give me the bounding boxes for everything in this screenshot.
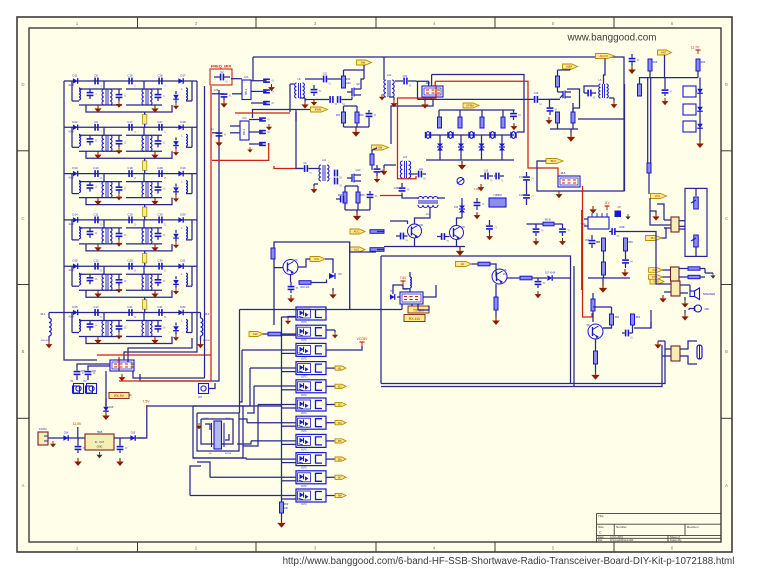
cap C51 — [622, 259, 629, 261]
cap C39 band 4 mid-right — [155, 233, 162, 235]
varactor VD4 — [499, 144, 505, 148]
svg-text:D17 4148: D17 4148 — [545, 273, 556, 275]
filter resistor R22 — [458, 117, 462, 128]
power label TX.11V — [408, 306, 429, 313]
ground fet2 stage big — [356, 212, 358, 216]
wires opto rows left nest — [242, 349, 296, 351]
fuse F3 between band 3 and 4 — [143, 207, 147, 217]
net oval PTT — [649, 275, 663, 280]
fet2 cap left C13 — [340, 196, 342, 203]
diode D18 band 4 — [178, 217, 183, 223]
wire IF oval to stage2 — [295, 112, 297, 147]
cap band 1 left-shunt — [87, 92, 94, 94]
svg-text:C04: C04 — [403, 75, 408, 78]
svg-text:R44: R44 — [701, 61, 706, 64]
cap C10 band 2 — [128, 124, 130, 131]
jack contact NB1 — [694, 197, 699, 209]
bus wire blue left — [204, 86, 206, 378]
resistor R56 — [624, 238, 628, 251]
svg-text:R42 10K: R42 10K — [301, 287, 310, 289]
mixer IC1 box — [242, 80, 251, 100]
svg-text:IC1: IC1 — [244, 75, 249, 79]
svg-text:7.8M: 7.8M — [474, 187, 481, 191]
ground band 3 right small — [175, 196, 177, 199]
ground left of CN4 — [657, 341, 659, 344]
svg-text:817C: 817C — [301, 322, 307, 324]
svg-text:C29: C29 — [157, 212, 163, 216]
wire IF2 from oval down — [296, 147, 304, 169]
svg-text:ANT: ANT — [661, 51, 667, 55]
svg-text:C: C — [725, 216, 728, 221]
svg-text:11.5V: 11.5V — [73, 422, 82, 426]
svg-text:C8: C8 — [94, 74, 98, 78]
diode D15 series — [130, 435, 135, 441]
svg-text:4148: 4148 — [68, 84, 74, 87]
svg-text:32768: 32768 — [225, 453, 232, 455]
transformer L8 — [295, 83, 297, 98]
svg-text:C: C — [599, 531, 602, 535]
ground mic right — [332, 291, 334, 294]
fet2 bias resistor R35 — [343, 192, 347, 203]
svg-text:R51: R51 — [615, 317, 620, 319]
svg-text:D16: D16 — [72, 305, 78, 309]
svg-text:DC/DC: DC/DC — [39, 428, 47, 431]
net label oval row 9 — [335, 457, 346, 461]
inductor L15 — [410, 277, 411, 288]
mic block wires — [274, 267, 283, 269]
relay coil RL2 right of band 6 — [201, 318, 203, 336]
jack inner stem — [695, 188, 697, 196]
transformer L14 horizontal — [418, 197, 438, 208]
inductor L6 band 3 right — [186, 181, 188, 193]
double bus bottom pair — [381, 341, 665, 384]
band filter 5 side wires — [63, 266, 65, 312]
amp bottom rail — [550, 128, 578, 130]
ground under TVS chain — [699, 140, 701, 144]
net oval BFO out — [546, 159, 563, 164]
svg-text:SBL1: SBL1 — [242, 128, 246, 135]
bus wire red mid — [119, 86, 211, 381]
svg-text:R36: R36 — [360, 195, 365, 197]
svg-text:B2: B2 — [338, 385, 342, 389]
cap C44 left of Q8 — [400, 233, 402, 240]
diode D19 mic — [329, 273, 335, 279]
svg-text:11V: 11V — [604, 201, 610, 205]
bfo bottom rail — [384, 246, 465, 248]
svg-text:D17: D17 — [180, 74, 186, 78]
svg-text:C10: C10 — [93, 166, 99, 170]
antenna rail wire — [639, 77, 698, 79]
ground band 2 mid — [118, 147, 120, 150]
net label oval row 4 — [335, 366, 346, 370]
cap band 6 left-shunt — [87, 323, 94, 325]
svg-text:B6: B6 — [338, 457, 342, 461]
opto driver U10 row 1 — [296, 307, 326, 320]
ground right of IC1 — [271, 84, 273, 87]
svg-text:C13: C13 — [93, 305, 99, 309]
svg-text:L10: L10 — [387, 73, 392, 77]
fuse F5 between band 5 and 6 — [143, 300, 147, 310]
R8 wires — [527, 223, 544, 225]
band 6 inner wiring — [71, 313, 73, 333]
svg-text:AN.I/O: AN.I/O — [600, 54, 609, 58]
diode D20 band 5 — [178, 263, 183, 269]
cap C40 band 5 mid-right — [155, 279, 162, 281]
resistor R26 — [556, 112, 560, 123]
svg-text:R8 1K: R8 1K — [545, 220, 552, 222]
svg-text:8M: 8M — [361, 61, 366, 65]
cap C9 fet2 drain — [374, 168, 381, 170]
cap C23 band 5 — [158, 263, 160, 270]
trimpot W2 — [87, 384, 97, 394]
svg-text:MIC: MIC — [705, 307, 710, 311]
cap C19 band 4 — [158, 217, 160, 224]
resistor R42 — [299, 281, 311, 285]
transformer L13 — [400, 161, 402, 178]
cap C26 left of IC1 — [221, 93, 228, 95]
row1 wire drop to nest — [239, 310, 241, 414]
crystal X1 — [424, 132, 426, 138]
wire top rail from IC1 — [253, 57, 624, 191]
wire bank-left down to power area — [64, 344, 97, 360]
transistor Q5 — [492, 269, 507, 284]
cap C6b right of IC1 — [263, 89, 270, 91]
cap C7 band 1 — [158, 78, 160, 85]
mic amp enclosure wires — [274, 242, 350, 325]
svg-text:7.8MHZ: 7.8MHZ — [493, 194, 502, 197]
svg-text:817C: 817C — [301, 340, 307, 342]
ground under RL2 coil — [200, 336, 202, 341]
opto driver U19 row 10 — [296, 471, 326, 484]
ground bfo big — [459, 247, 461, 251]
ground under VOL wire — [655, 213, 657, 216]
opto column shared cathode bus — [281, 317, 283, 502]
net label oval row 5 — [335, 384, 346, 388]
filter resistor R24 — [501, 117, 505, 128]
ground right of L5 — [613, 101, 615, 104]
wire D17 to bus — [553, 277, 571, 279]
ground under C40 — [664, 98, 666, 101]
cap C36 band 1 mid-right — [155, 94, 162, 96]
wire W3 to bus — [209, 383, 216, 389]
cap C1 with ground — [629, 58, 636, 60]
ground band 6 right small — [175, 335, 177, 338]
cap band 2 left-shunt — [87, 138, 94, 140]
transformer T11 band 6 — [102, 321, 104, 337]
double bus vertical right — [573, 266, 575, 387]
svg-text:AGC: AGC — [354, 230, 360, 234]
relay RL5 — [558, 176, 580, 187]
ground under C1 — [631, 66, 633, 70]
crystal X2 — [447, 132, 449, 138]
ground band 3 mid — [118, 194, 120, 197]
opto row1 left pin gnd — [288, 317, 296, 319]
cap C2 in red box — [220, 74, 222, 81]
svg-text:817C: 817C — [301, 377, 307, 379]
svg-text:SBL1: SBL1 — [244, 88, 248, 95]
wire from mic block to TX loop — [350, 251, 376, 253]
ground under C4 — [218, 139, 220, 142]
band filter 1 top rail wire — [64, 80, 197, 82]
ground fet stage big — [355, 128, 357, 132]
electret mic M1 — [697, 345, 702, 359]
net oval CW — [649, 268, 663, 273]
red wire loop at IC2 — [235, 112, 290, 114]
ground band 2 right small — [175, 149, 177, 152]
transformer T4 band 2 — [142, 135, 144, 151]
cap C15 — [484, 173, 486, 180]
transformer T2 band 1 — [142, 89, 144, 105]
svg-text:Title: Title — [598, 514, 604, 518]
ground band 4 left-shunt — [97, 244, 99, 247]
svg-text:C26: C26 — [214, 89, 219, 92]
svg-text:D20: D20 — [180, 212, 186, 216]
cap C12 bypass — [366, 113, 373, 115]
RL6 wires — [411, 304, 413, 306]
cap C15 band 3 — [158, 170, 160, 177]
ground filter — [461, 161, 463, 165]
cap C54 — [625, 330, 627, 337]
net oval DA7.8M — [372, 145, 389, 150]
cap C22 shunt — [547, 107, 554, 109]
resistor R62 — [688, 267, 700, 270]
net oval AGC top — [357, 60, 372, 65]
inductor L1 band 1 left — [79, 88, 81, 100]
net label oval row 10 — [335, 475, 346, 479]
TVS protection diode row 2 — [683, 104, 696, 115]
resistor R27 — [571, 112, 575, 123]
audio bottom rail — [588, 277, 630, 279]
svg-text:R52: R52 — [636, 317, 641, 319]
wire Q5 row to double bus — [570, 277, 572, 279]
ground band 5 left-shunt — [97, 290, 99, 293]
transformer T1 band 1 — [102, 89, 104, 105]
svg-text:PH: PH — [651, 236, 655, 240]
svg-text:A: A — [22, 483, 25, 488]
key connector CN4 tan — [671, 346, 680, 361]
svg-text:D14: D14 — [72, 212, 78, 216]
yellow net label below RL3 — [109, 393, 131, 398]
svg-text:C11: C11 — [94, 212, 99, 216]
resistor R44 — [696, 59, 700, 71]
resistor R31 bias — [342, 112, 346, 123]
trimmer cap CT1 — [457, 178, 464, 185]
net oval VOL — [651, 194, 667, 199]
ground below C58 — [77, 458, 79, 462]
resistor R47 on dual wire — [647, 163, 651, 173]
diode D32 band 2 vert — [173, 141, 179, 145]
crystal filter top rail — [439, 109, 515, 111]
crystal Y4 7.8MHZ box — [489, 198, 506, 207]
svg-text:2N3: 2N3 — [503, 274, 508, 276]
ground below Q6 — [595, 371, 597, 375]
vertical wire x537 — [537, 170, 580, 191]
svg-text:D19: D19 — [180, 166, 186, 170]
ground below 7805 — [99, 452, 101, 455]
red wire RL3 to L13 bfo input — [398, 86, 437, 179]
svg-text:C42: C42 — [519, 177, 524, 179]
cap C3 left of L5 — [587, 90, 589, 97]
ground band 2 left-shunt — [97, 151, 99, 154]
inductor L11 band 6 left — [79, 320, 81, 332]
net label oval row 11 — [335, 493, 346, 497]
inductor L9 band 5 left — [79, 273, 81, 285]
caps C33 C34 right of L11 — [334, 170, 336, 177]
red loop wire over filter — [435, 81, 558, 176]
svg-text:C11: C11 — [323, 73, 328, 76]
cap C52 mic — [288, 286, 295, 288]
svg-text:ALC: ALC — [354, 248, 359, 252]
L5 wires — [604, 59, 606, 85]
svg-text:D:\hf-ssb\6band.ddb: D:\hf-ssb\6band.ddb — [610, 538, 634, 542]
ground amp stage big — [570, 133, 572, 137]
ground under C49 — [537, 291, 539, 294]
cap C13 right of IC2 — [259, 117, 266, 119]
cap C16 — [495, 173, 497, 180]
cap C14 on source line — [329, 96, 331, 103]
ground band 1 right small — [175, 103, 177, 106]
svg-text:22NF: 22NF — [619, 227, 625, 229]
ground crystal pack — [198, 423, 200, 426]
TX loop big box wire — [381, 256, 571, 384]
band 1 inner wiring — [71, 81, 73, 101]
cap C30 shunt — [311, 89, 318, 91]
wire nest right loop to mid-bus — [133, 371, 205, 378]
svg-text:C32: C32 — [454, 207, 459, 209]
ground under C26 — [223, 100, 225, 103]
svg-text:817C: 817C — [301, 413, 307, 415]
svg-text:C28: C28 — [157, 166, 163, 170]
ground below mic icon — [684, 313, 686, 316]
svg-text:D15: D15 — [72, 259, 78, 263]
cap C26 band 6 — [128, 309, 130, 316]
opto driver U20 row 11 — [296, 489, 326, 502]
svg-text:R46: R46 — [653, 61, 658, 64]
cap C28 band 6 — [94, 309, 96, 316]
cap C6 series — [304, 165, 306, 172]
svg-text:VOL: VOL — [655, 194, 661, 198]
IC2 right pin wires — [249, 119, 263, 121]
Q6 collector network wires — [592, 293, 594, 299]
svg-text:7.5V: 7.5V — [400, 276, 407, 280]
filter resistor R21 — [438, 117, 442, 128]
wire R3 to Q5 base — [495, 270, 497, 277]
svg-text:817C: 817C — [301, 358, 307, 360]
cap C30 band 1 mid-left — [116, 94, 123, 96]
diode D34 band 3 vert — [173, 187, 179, 191]
resistor R32 bias — [355, 112, 359, 123]
svg-text:817C: 817C — [301, 504, 307, 506]
blue wire 7M oval up to IF line — [391, 99, 433, 144]
ground under C30 — [313, 99, 315, 102]
resistor R55 — [602, 238, 606, 251]
fet2 bias resistor R36 — [356, 192, 360, 203]
mixer IC2 box — [240, 121, 249, 140]
svg-text:A: A — [725, 483, 728, 488]
svg-text:7805: 7805 — [97, 430, 103, 434]
relay RL3 IF switch — [422, 86, 443, 97]
cap C33 band 4 mid-left — [116, 233, 123, 235]
svg-text:C43: C43 — [519, 195, 524, 197]
transformer T5 band 3 — [102, 182, 104, 198]
svg-text:817C: 817C — [301, 431, 307, 433]
CN3 wires — [680, 284, 690, 286]
band 3 inner wiring — [71, 174, 73, 194]
ground under C48 — [562, 238, 564, 241]
cap C43 right — [523, 194, 530, 196]
resistor R5 below Q5 — [494, 297, 498, 310]
cap C22 band 5 — [128, 263, 130, 270]
svg-text:IF8M: IF8M — [315, 108, 322, 112]
diode D21 band 6 — [73, 310, 78, 316]
diode D19 band 5 — [73, 263, 78, 269]
svg-text:D14: D14 — [64, 432, 69, 435]
diode D13 band 2 — [73, 125, 78, 131]
diode D15 band 3 — [73, 171, 78, 177]
cap C6 band 1 — [128, 78, 130, 85]
svg-text:B7: B7 — [338, 476, 342, 480]
diode D22 band 6 — [178, 310, 183, 316]
Q5 base wire — [490, 264, 496, 270]
ground left of CN3 — [662, 295, 664, 298]
red wire RL1 to right bus — [118, 357, 120, 371]
svg-text:C15: C15 — [484, 171, 489, 173]
svg-text:B8: B8 — [338, 494, 342, 498]
ground band 1 mid — [118, 101, 120, 104]
crystal pack nested loop 4 — [205, 424, 210, 430]
svg-text:100K: 100K — [345, 82, 351, 85]
svg-text:CW: CW — [253, 332, 258, 336]
ground under C38 — [489, 233, 491, 236]
svg-text:R32: R32 — [359, 115, 364, 117]
cap C8 supply — [615, 211, 622, 218]
ground under C51 — [624, 269, 626, 272]
svg-text:R60: R60 — [284, 503, 289, 506]
cap C32 band 3 mid-left — [116, 186, 123, 188]
opto driver U13 row 4 — [296, 362, 326, 375]
svg-text:IN OUT: IN OUT — [95, 441, 105, 444]
cap C20 filter right — [510, 113, 517, 115]
svg-text:L13: L13 — [403, 156, 408, 159]
ground band 3 left-shunt — [97, 198, 99, 201]
inductor L10 band 5 right — [186, 273, 188, 285]
ground under C20 — [513, 123, 515, 126]
blue loop wire over filter — [432, 75, 524, 133]
svg-text:D22: D22 — [180, 305, 186, 309]
svg-text:PTT: PTT — [652, 275, 658, 279]
net oval AGC2 top right — [563, 64, 578, 69]
svg-text:www.banggood.com: www.banggood.com — [567, 33, 657, 44]
resistor R30 — [342, 76, 346, 88]
cap C48 — [559, 228, 566, 230]
svg-text:C19: C19 — [127, 212, 133, 216]
band filter 4 side wires — [63, 220, 65, 266]
trimpot W1 — [74, 384, 84, 394]
wires 7.5V to RL6 and diode — [393, 285, 403, 294]
filter bottom rail — [426, 159, 514, 161]
fuse box F2 — [86, 386, 93, 393]
resistor R4 series — [520, 276, 532, 280]
svg-text:817C: 817C — [301, 486, 307, 488]
svg-text:4148: 4148 — [68, 223, 74, 226]
filter series rail — [426, 134, 514, 136]
cap C37 — [474, 202, 481, 204]
svg-text:C20: C20 — [127, 259, 133, 263]
svg-text:Number: Number — [616, 525, 627, 529]
fuse F2 between band 2 and 3 — [143, 161, 147, 171]
svg-text:D18: D18 — [180, 120, 186, 124]
ground under RL5 — [558, 191, 560, 194]
